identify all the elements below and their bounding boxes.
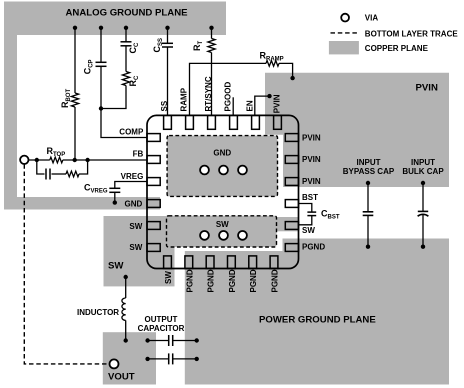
svg-text:PGND: PGND bbox=[228, 269, 237, 292]
wire CBST to SW pin bbox=[299, 216, 312, 225]
pin EN (top 5) bbox=[252, 115, 260, 129]
GND thermal pad bbox=[167, 136, 277, 197]
svg-text:PVIN: PVIN bbox=[273, 94, 282, 113]
capacitor CSS bbox=[162, 43, 173, 47]
svg-text:SW: SW bbox=[129, 243, 142, 252]
resistor feedforward bbox=[66, 171, 79, 177]
capacitor input bulk (polarized) bbox=[418, 211, 429, 216]
wire RAMP up and right bbox=[190, 63, 267, 115]
svg-text:INDUCTOR: INDUCTOR bbox=[77, 308, 119, 317]
wire C_SS upper bbox=[167, 28, 169, 44]
wire PGOOD stub bbox=[232, 97, 234, 115]
svg-text:RAMP: RAMP bbox=[180, 87, 189, 111]
capacitor CCP bbox=[96, 62, 107, 66]
pin PVIN (top 6) bbox=[274, 115, 282, 129]
pin PGND (bottom 2) bbox=[185, 256, 193, 269]
wire COMP bbox=[101, 109, 147, 138]
svg-text:PVIN: PVIN bbox=[302, 177, 321, 186]
svg-text:INPUT: INPUT bbox=[357, 158, 381, 167]
junction dot analog plane R_T bbox=[209, 26, 213, 30]
svg-text:PVIN: PVIN bbox=[302, 155, 321, 164]
pin SS (top 1) bbox=[164, 115, 172, 129]
svg-text:CAPACITOR: CAPACITOR bbox=[138, 324, 185, 333]
wire RTOP to FB pin bbox=[63, 159, 147, 161]
junction dot RRAMP at PVIN plane bbox=[290, 76, 294, 80]
pin SW (left 6) bbox=[147, 244, 160, 252]
capacitor input bypass bbox=[363, 212, 374, 216]
wire feedforward middle bbox=[52, 173, 67, 175]
resistor RT bbox=[208, 39, 215, 53]
junction dot outcap2 right bbox=[195, 357, 199, 361]
wire R_C lower bbox=[101, 86, 126, 109]
svg-text:PVIN: PVIN bbox=[416, 83, 438, 94]
svg-text:PGND: PGND bbox=[302, 243, 325, 252]
junction dot bulk cap top bbox=[421, 181, 425, 185]
junction dot outcap1 right bbox=[195, 338, 199, 342]
svg-text:SW: SW bbox=[129, 222, 142, 231]
junction dot EN at PVIN plane bbox=[267, 94, 271, 98]
pin PGND (bottom 6) bbox=[270, 256, 278, 269]
pin PGND (right 6) bbox=[285, 244, 298, 252]
wire bypass cap lower bbox=[367, 215, 369, 246]
pin SW (right 5) bbox=[285, 222, 298, 230]
legend via symbol bbox=[341, 14, 349, 22]
svg-text:BYPASS CAP: BYPASS CAP bbox=[343, 167, 395, 176]
svg-text:BOTTOM LAYER TRACE: BOTTOM LAYER TRACE bbox=[365, 29, 459, 38]
junction dot analog plane C_CP bbox=[99, 26, 103, 30]
junction dot FB node 3 bbox=[85, 158, 89, 162]
wire SS bbox=[167, 47, 169, 115]
svg-text:BULK CAP: BULK CAP bbox=[402, 167, 444, 176]
svg-text:OUTPUT: OUTPUT bbox=[145, 315, 178, 324]
junction dot CVREG at plane bbox=[113, 200, 117, 204]
copper plane: SW strip to right SW pin bbox=[277, 217, 299, 231]
svg-text:PGND: PGND bbox=[271, 269, 280, 292]
junction dot bypass cap bottom bbox=[366, 245, 370, 249]
wire RRAMP to PVIN plane bbox=[279, 63, 293, 78]
copper plane: VOUT plane bbox=[103, 332, 156, 384]
legend copper plane swatch bbox=[329, 41, 359, 54]
pin COMP (left 1) bbox=[147, 134, 160, 142]
svg-text:GND: GND bbox=[213, 149, 231, 158]
pin SW (left 5) bbox=[147, 222, 160, 230]
svg-text:SW: SW bbox=[164, 271, 173, 284]
junction dot bypass cap top bbox=[366, 181, 370, 185]
svg-text:COPPER PLANE: COPPER PLANE bbox=[365, 44, 429, 53]
pin SW (bottom 1) bbox=[164, 256, 172, 269]
junction dot inductor bottom (VOUT plane) bbox=[124, 338, 128, 342]
inductor L1 bbox=[122, 298, 126, 320]
QFN package body U1 bbox=[147, 115, 299, 268]
capacitor CC bbox=[121, 42, 132, 46]
wire CVREG to analog plane bbox=[114, 192, 116, 202]
legend bottom layer trace sample bbox=[331, 32, 360, 34]
wire feedforward right bbox=[79, 160, 88, 174]
capacitor output 2 bbox=[169, 353, 173, 364]
pin VREG (left 3) bbox=[147, 178, 160, 186]
wire R_T upper bbox=[211, 28, 213, 39]
capacitor CVREG bbox=[109, 188, 120, 192]
junction dot comp node bbox=[99, 106, 103, 110]
svg-text:FB: FB bbox=[133, 150, 144, 159]
junction dot inductor top (SW plane) bbox=[124, 275, 128, 279]
via GND pad 1 bbox=[200, 166, 209, 175]
svg-text:VREG: VREG bbox=[121, 172, 144, 181]
via SW pad 1 bbox=[200, 231, 209, 240]
wire RT/SYNC bbox=[211, 53, 213, 116]
svg-text:SW: SW bbox=[108, 261, 124, 272]
wire outcap1 right bbox=[173, 340, 197, 342]
pin FB (left 2) bbox=[147, 156, 160, 164]
resistor RRAMP bbox=[266, 61, 279, 67]
pin PGND (bottom 5) bbox=[249, 256, 257, 269]
svg-text:PGND: PGND bbox=[249, 269, 258, 292]
junction dot outcap2 left bbox=[145, 357, 149, 361]
svg-text:PGND: PGND bbox=[185, 269, 194, 292]
svg-text:VIA: VIA bbox=[365, 14, 379, 23]
capacitor feedforward bbox=[46, 169, 50, 180]
pin PVIN (right 1) bbox=[285, 134, 298, 142]
junction dot bulk cap bottom bbox=[421, 245, 425, 249]
pin RAMP (top 2) bbox=[186, 115, 194, 129]
via SW pad 3 bbox=[238, 231, 247, 240]
svg-text:ANALOG GROUND PLANE: ANALOG GROUND PLANE bbox=[65, 8, 188, 19]
wire C_CP lower bbox=[100, 66, 102, 108]
pin RT/SYNC (top 3) bbox=[208, 115, 216, 129]
via VOUT bbox=[110, 359, 119, 368]
svg-text:POWER GROUND PLANE: POWER GROUND PLANE bbox=[259, 315, 376, 326]
wire R_BOT upper bbox=[74, 28, 76, 93]
via VREG feedback (top-left) bbox=[20, 156, 28, 164]
wire outcap2 right bbox=[173, 358, 197, 360]
capacitor output 1 bbox=[169, 335, 173, 346]
junction dot outcap1 left bbox=[145, 338, 149, 342]
capacitor CBST bbox=[307, 212, 316, 216]
copper plane: PVIN plane bbox=[265, 73, 449, 187]
wire bypass cap upper bbox=[367, 183, 369, 212]
pin PGND (bottom 4) bbox=[228, 256, 236, 269]
copper plane: SW plane left block bbox=[104, 216, 175, 286]
wire bulk cap lower bbox=[422, 215, 424, 247]
svg-text:SW: SW bbox=[302, 226, 315, 235]
junction dot analog plane C_SS bbox=[165, 26, 169, 30]
wire C_C upper bbox=[125, 28, 127, 42]
junction dot analog plane R_BOT bbox=[73, 26, 77, 30]
svg-text:BST: BST bbox=[302, 193, 318, 202]
pin PGND (bottom 3) bbox=[206, 256, 214, 269]
wire R_BOT lower bbox=[74, 107, 76, 160]
wire C_C to R_C bbox=[125, 46, 127, 72]
bottom layer trace (dashed) via to VOUT bbox=[24, 164, 109, 364]
svg-text:PVIN: PVIN bbox=[302, 134, 321, 143]
resistor RC bbox=[122, 72, 129, 86]
SW thermal pad bbox=[167, 216, 277, 247]
wire inductor lower bbox=[125, 320, 127, 340]
pin GND (left 4) bbox=[147, 200, 160, 208]
resistor RBOT bbox=[71, 93, 78, 107]
wire C_CP upper bbox=[100, 28, 102, 63]
pin PVIN (right 2) bbox=[285, 156, 298, 164]
wire outcap2 left bbox=[148, 358, 169, 360]
svg-text:PGND: PGND bbox=[207, 269, 216, 292]
svg-text:VOUT: VOUT bbox=[108, 372, 135, 383]
svg-text:COMP: COMP bbox=[119, 127, 144, 136]
wire feedforward branch left bbox=[37, 160, 45, 174]
pin PGOOD (top 4) bbox=[230, 115, 238, 129]
svg-text:SW: SW bbox=[216, 220, 229, 229]
junction dot FB node 1 bbox=[35, 158, 39, 162]
wire EN to PVIN plane bbox=[255, 96, 270, 115]
wire inductor upper bbox=[125, 277, 127, 298]
pin BST (right 4) bbox=[285, 200, 298, 208]
svg-text:INPUT: INPUT bbox=[411, 158, 435, 167]
resistor RTOP bbox=[50, 157, 63, 163]
wire outcap1 left bbox=[148, 340, 169, 342]
svg-text:PGOOD: PGOOD bbox=[224, 81, 233, 111]
wire FB node bbox=[29, 159, 50, 161]
copper plane: power ground plane bbox=[185, 239, 449, 385]
pin PVIN (right 3) bbox=[285, 178, 298, 186]
copper plane: analog ground plane bbox=[4, 2, 226, 210]
junction dot FB node 2 (RBOT join) bbox=[73, 158, 77, 162]
wire BST bbox=[299, 204, 312, 213]
via SW pad 2 bbox=[219, 231, 228, 240]
svg-text:EN: EN bbox=[246, 100, 255, 111]
wire bulk cap upper bbox=[422, 183, 424, 211]
wire VREG bbox=[115, 182, 147, 189]
via GND pad 3 bbox=[238, 166, 247, 175]
junction dot analog plane C_C bbox=[124, 26, 128, 30]
via GND pad 2 bbox=[219, 166, 228, 175]
svg-text:GND: GND bbox=[125, 200, 143, 209]
